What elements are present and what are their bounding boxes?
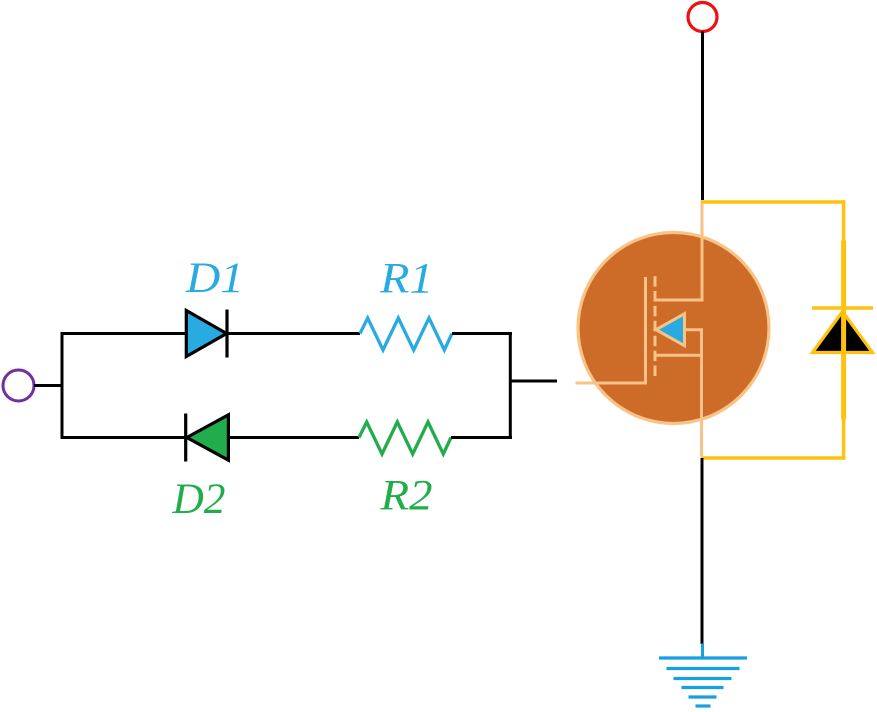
wire input terminal to left rail (34, 384, 64, 387)
ground (659, 644, 747, 707)
svg-text:R1: R1 (379, 256, 434, 303)
Q1 body-source connector (700, 330, 703, 356)
diode D1 (186, 310, 227, 358)
transistor Q1 (MOSFET body circle) (578, 233, 769, 424)
Q1 gate lead (576, 382, 648, 385)
wire gold loop right lower (842, 418, 846, 460)
Q1 body arrow (cyan) (656, 314, 685, 346)
Q1 channel (dashed) (654, 276, 657, 377)
Q1 gate bar (644, 277, 647, 385)
Q1 source lead (vertical, peach) (700, 355, 703, 456)
Q1 drain stub (655, 299, 704, 302)
wire gold loop bottom (source to body diode) (701, 456, 846, 460)
svg-text:D2: D2 (171, 476, 225, 523)
wire right rail (vertical) (509, 332, 512, 439)
wire gold loop top (drain to body diode) (701, 200, 846, 204)
wire top terminal to drain node (701, 32, 704, 201)
diode D3 (body diode) (812, 308, 873, 353)
resistor R2 (359, 422, 451, 454)
svg-text:R2: R2 (379, 473, 432, 520)
wire left rail (vertical) (61, 332, 64, 439)
wire gold loop right upper (842, 200, 846, 242)
wire output stub to gate (510, 380, 557, 383)
terminal P1 (input, purple) (3, 370, 34, 401)
wire left rail to D1 anode (61, 332, 186, 335)
wire D2 anode to R2 (229, 436, 359, 439)
wire body diode cathode lead (thick) (841, 241, 846, 420)
diode D2 (186, 414, 229, 462)
wire R1 to right rail (452, 332, 512, 335)
resistor R1 (360, 318, 452, 350)
svg-text:D1: D1 (185, 255, 244, 302)
Q1 body lead (684, 328, 703, 331)
terminal P2 (drain supply, red) (688, 3, 717, 32)
wire left rail to D2 cathode (61, 436, 187, 439)
Q1 drain lead (vertical, peach) (701, 204, 704, 300)
wire source node to ground (701, 458, 704, 644)
wire D1 cathode to R1 (227, 332, 360, 335)
wire R2 to right rail (451, 436, 512, 439)
Q1 source stub (655, 354, 704, 357)
